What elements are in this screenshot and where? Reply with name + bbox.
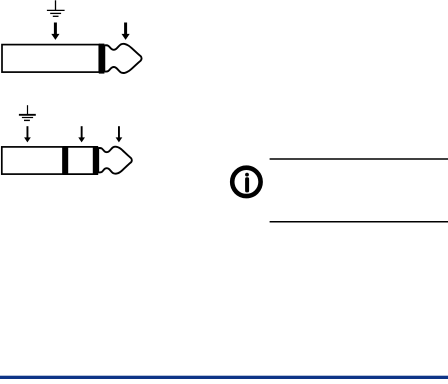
arrow to stereo plug tip: [116, 126, 123, 142]
mono plug sleeve body: [2, 45, 99, 73]
mono plug insulator band: [99, 44, 105, 74]
note rule bottom: [270, 221, 448, 223]
note rule top: [270, 158, 448, 160]
stereo plug insulator band 1: [63, 146, 68, 175]
stereo plug ring section: [68, 147, 93, 174]
arrow to stereo plug sleeve: [24, 126, 31, 142]
footer blue line: [0, 376, 448, 379]
stereo plug sleeve body: [2, 147, 63, 174]
info icon i-dot: [245, 173, 249, 177]
info icon circle: [232, 168, 260, 196]
arrow to stereo plug ring: [78, 126, 85, 142]
stereo plug insulator band 2: [93, 146, 98, 175]
arrow to mono plug tip: [122, 23, 130, 40]
mono plug tip: [104, 44, 141, 73]
ground symbol (mono plug sleeve): [47, 0, 65, 16]
info icon i-stem: [245, 177, 249, 192]
ground symbol (stereo plug sleeve): [19, 105, 36, 120]
arrow to mono plug sleeve: [51, 23, 59, 40]
stereo plug tip: [98, 147, 132, 174]
